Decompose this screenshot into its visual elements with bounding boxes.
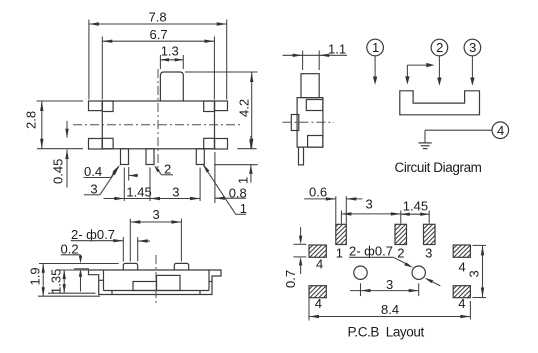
svg-text:4: 4 (316, 257, 323, 272)
dimension 0.7 pad height (283, 227, 307, 288)
ground wire (425, 130, 492, 143)
end view notch top-right (306, 100, 323, 111)
title P.C.B Layout (348, 324, 425, 339)
dimension 1.9 (28, 264, 101, 297)
pad label 3 (425, 246, 432, 261)
vertical centerline top view (157, 69, 159, 168)
terminal circle 4 (492, 122, 509, 139)
terminal 2 arrow (437, 56, 441, 86)
svg-text:1.3: 1.3 (161, 43, 179, 58)
top view body outline (102, 101, 214, 149)
dimension 1.3 (160, 43, 183, 69)
inner notch top-left (102, 101, 113, 112)
corner pad left-top (hatched) (309, 245, 326, 257)
dimension 1.45 pin pitch (104, 168, 152, 202)
corner pad right-top (hatched) (453, 245, 470, 257)
label 2-phi0.7 holes (349, 244, 440, 286)
end view centerline (282, 121, 334, 123)
dimension 3 pin pitch (150, 168, 200, 202)
svg-text:3: 3 (153, 207, 160, 222)
pad 2 (hatched) (395, 224, 407, 244)
svg-text:3: 3 (172, 185, 179, 200)
dimension 1.35 (48, 269, 96, 294)
svg-text:0.6: 0.6 (309, 185, 327, 200)
svg-text:1.45: 1.45 (403, 199, 428, 214)
terminal 3 arrow (470, 56, 474, 86)
label pin number 3 leader (84, 166, 119, 196)
dimension 3 boss spacing (130, 207, 181, 262)
svg-text:0.4: 0.4 (84, 164, 102, 179)
pin 2 (middle, top view) (146, 149, 154, 165)
pad label 4 right-top (459, 260, 466, 275)
pad label 4 left-top (316, 257, 323, 272)
svg-text:2: 2 (436, 40, 443, 55)
svg-text:3: 3 (90, 181, 97, 196)
svg-text:2: 2 (397, 246, 404, 261)
svg-text:1: 1 (336, 246, 343, 261)
slider travel L-arrow (405, 63, 434, 85)
label pin number 2 leader (154, 162, 173, 177)
hole circle 2 (412, 266, 425, 279)
hole circle 1 (354, 266, 367, 279)
svg-text:3: 3 (366, 197, 373, 212)
pad label 4 right-bottom (458, 296, 465, 311)
title Circuit Diagram (395, 160, 482, 175)
dimension 1.45 pads 2-3 (401, 199, 429, 224)
svg-text:3: 3 (469, 40, 476, 55)
svg-text:7.8: 7.8 (149, 10, 167, 25)
svg-text:0.45: 0.45 (51, 159, 66, 184)
knob (actuator) top view (160, 72, 183, 101)
pin 1 (rightmost, top view) (196, 149, 204, 165)
side tab top-left (89, 101, 103, 111)
dimension 2.8 (24, 101, 84, 149)
svg-text:0.2: 0.2 (61, 242, 79, 257)
svg-text:2- ф0.7: 2- ф0.7 (71, 227, 115, 242)
svg-text:4: 4 (497, 123, 504, 138)
svg-text:0.7: 0.7 (283, 270, 298, 288)
side view internal contact box B (157, 275, 181, 290)
svg-text:1.9: 1.9 (28, 267, 43, 285)
svg-text:2.8: 2.8 (24, 111, 39, 129)
svg-text:4: 4 (458, 296, 465, 311)
label 2-phi0.7 bosses (71, 227, 150, 262)
end view body (297, 98, 323, 148)
svg-text:1: 1 (236, 177, 251, 184)
horizontal centerline top view (73, 124, 243, 126)
side view body walls (99, 270, 212, 295)
dimension 3 right pads (467, 245, 486, 297)
dimension 3 pads 1-2 (341, 197, 400, 224)
side tab bottom-right (215, 139, 228, 150)
pad label 1 (336, 246, 343, 261)
svg-text:2- ф0.7: 2- ф0.7 (349, 244, 393, 259)
pad 3 (hatched) (424, 224, 436, 244)
side view vertical centerline (155, 255, 157, 305)
dimension 0.6 (304, 185, 362, 224)
end view left tab (291, 115, 299, 131)
svg-text:8.4: 8.4 (381, 302, 399, 317)
terminal circle 3 (464, 39, 481, 56)
svg-text:4.2: 4.2 (237, 99, 252, 117)
label pin number 1 leader (203, 164, 248, 217)
pad label 4 left-bottom (315, 296, 322, 311)
dimension 1 (pin length, right) (214, 136, 258, 184)
side tab bottom-left (89, 139, 103, 150)
ground symbol (418, 143, 431, 149)
svg-text:1.45: 1.45 (126, 185, 151, 200)
svg-text:1.35: 1.35 (49, 269, 64, 294)
svg-text:0.8: 0.8 (229, 185, 247, 200)
inner notch bottom-right (204, 138, 215, 149)
svg-text:Circuit Diagram: Circuit Diagram (395, 160, 482, 175)
svg-text:4: 4 (459, 260, 466, 275)
svg-text:1: 1 (240, 201, 247, 216)
side tab top-right (215, 101, 228, 111)
dimension 6.7 (102, 27, 214, 100)
pad label 2 (397, 246, 404, 261)
svg-text:1: 1 (372, 40, 379, 55)
dimension 0.45 (51, 121, 69, 188)
inner notch top-right (204, 101, 215, 112)
end view pin (299, 147, 304, 165)
pin 3 (leftmost, top view) (121, 149, 129, 165)
svg-text:6.7: 6.7 (150, 27, 168, 42)
inner notch bottom-left (102, 138, 113, 149)
terminal circle 1 (367, 39, 384, 56)
switch contact bracket (400, 91, 480, 115)
terminal 1 arrow (373, 56, 377, 85)
dimension 0.8 (215, 152, 247, 203)
dimension 8.4 (309, 297, 470, 321)
end view notch bottom-right (308, 136, 323, 148)
dimension 0.2 (39, 242, 119, 292)
boss 2 (phi 0.7) side view (174, 263, 188, 270)
svg-text:3: 3 (386, 277, 393, 292)
dimension 1.1 (283, 42, 348, 71)
side view outer shell (89, 270, 222, 295)
svg-text:3: 3 (467, 270, 482, 277)
side view internal contact box A (133, 282, 157, 291)
dimension 7.8 (89, 10, 227, 100)
svg-text:1.1: 1.1 (328, 42, 346, 57)
dimension 3 hole spacing (350, 277, 419, 296)
svg-text:P.C.B Layout: P.C.B Layout (348, 324, 425, 339)
corner pad left-bottom (hatched) (309, 286, 326, 298)
svg-text:4: 4 (315, 296, 322, 311)
dimension 4.2 (185, 72, 258, 149)
end view knob (301, 74, 319, 98)
pad 1 (hatched) (336, 224, 347, 244)
svg-text:3: 3 (425, 246, 432, 261)
corner pad right-bottom (hatched) (453, 286, 470, 298)
label 0.4 pin width leader (84, 164, 139, 181)
boss 1 (phi 0.7) side view (123, 263, 137, 270)
terminal circle 2 (431, 39, 448, 56)
